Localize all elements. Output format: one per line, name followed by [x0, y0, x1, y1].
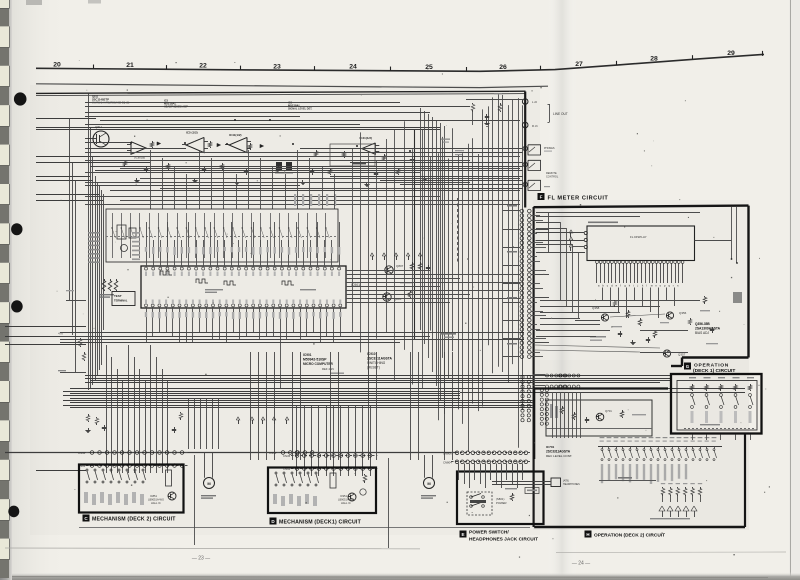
svg-text:G: G	[686, 364, 690, 369]
IC901 inner pin numbers	[145, 272, 147, 277]
vertical wire drops deck2	[106, 345, 108, 473]
svg-text:PHONES: PHONES	[544, 147, 555, 150]
IC901 side labels	[132, 232, 140, 234]
bias extra components	[614, 300, 616, 302]
page 24 bottom edge line	[556, 551, 786, 554]
ruler tick	[692, 55, 694, 59]
resistor box in E	[525, 488, 539, 494]
svg-text:Q356: Q356	[679, 311, 687, 315]
connector CN45 row	[291, 452, 304, 454]
svg-text:MICRO COMPUTER: MICRO COMPUTER	[303, 362, 333, 366]
svg-text:Q807: Q807	[396, 264, 404, 268]
svg-text:MECHANISM (DECK1) CIRCUIT: MECHANISM (DECK1) CIRCUIT	[279, 520, 362, 526]
transistor Q810	[383, 293, 391, 301]
wires into E box	[458, 464, 460, 481]
power switch S801	[467, 492, 492, 515]
remote control jack	[523, 162, 527, 166]
svg-text:POWER SWITCH/: POWER SWITCH/	[469, 530, 509, 536]
svg-text:OPERATION: OPERATION	[694, 363, 729, 369]
svg-text:FL METER CIRCUIT: FL METER CIRCUIT	[548, 196, 609, 202]
motor M deck1	[424, 478, 435, 489]
signal arrows	[157, 142, 160, 145]
FL meter box border	[534, 206, 749, 208]
svg-text:SIGNAL LEVEL DET.: SIGNAL LEVEL DET.	[288, 108, 313, 111]
microcomputer IC901 body	[141, 266, 346, 308]
ruler tick	[762, 51, 764, 56]
svg-text:Q811: Q811	[95, 125, 102, 129]
punch hole	[8, 506, 19, 518]
components near Q807	[412, 262, 414, 264]
wire bus left margin verticals	[88, 94, 90, 391]
svg-text:IC901: IC901	[303, 353, 312, 357]
label E POWER SWITCH HEADPHONES JACK CIRCUIT	[460, 531, 467, 538]
svg-text:IC851: IC851	[150, 494, 157, 498]
wire bus band lower	[60, 332, 524, 334]
svg-text:20: 20	[53, 62, 61, 69]
connector column CN70x	[540, 388, 543, 391]
mechanism deck1 box	[268, 468, 376, 514]
svg-text:29: 29	[727, 50, 735, 57]
svg-text:24: 24	[349, 64, 357, 71]
dashed vertical bus	[457, 198, 459, 262]
ruler tick	[314, 66, 316, 70]
labels above matrix	[294, 194, 296, 206]
svg-text:Q810: Q810	[394, 297, 402, 301]
svg-text:IC5 (1/2): IC5 (1/2)	[186, 131, 198, 135]
svg-text:23: 23	[273, 63, 281, 70]
svg-text:HEADPHONES: HEADPHONES	[563, 483, 580, 486]
svg-text:CONTROL: CONTROL	[546, 176, 559, 179]
svg-text:28: 28	[650, 56, 658, 63]
svg-text:HALL IC: HALL IC	[151, 501, 161, 505]
F box vertical wires	[560, 222, 562, 300]
FL right verticals	[731, 207, 733, 259]
mechanism deck2 box	[79, 465, 184, 513]
vertical wires H	[552, 392, 554, 438]
ruler tick	[540, 66, 542, 70]
wires fold to H	[533, 374, 546, 376]
svg-text:BIAS ADJ: BIAS ADJ	[695, 331, 709, 335]
amplifier feedback components	[124, 160, 126, 162]
punch hole	[11, 223, 22, 235]
svg-text:HEADPHONES AMP: HEADPHONES AMP	[164, 106, 188, 109]
IC901 top pins	[145, 267, 148, 270]
record-play switch matrix block	[106, 209, 338, 262]
transistor Q357	[663, 350, 670, 357]
deck1 operation switches	[689, 377, 696, 378]
svg-text:Q701: Q701	[605, 409, 612, 413]
FL display left pins	[584, 231, 587, 234]
transistor Q358	[601, 314, 608, 321]
svg-text:M50942-510SP: M50942-510SP	[303, 358, 327, 362]
svg-text:2SC3311AGSTA: 2SC3311AGSTA	[546, 450, 571, 454]
dark block	[733, 292, 742, 303]
punch hole	[11, 300, 23, 312]
G box feed wires	[692, 435, 694, 441]
connector column lower fold	[521, 375, 524, 378]
label F FL METER CIRCUIT	[538, 193, 545, 200]
connector rows H	[546, 374, 549, 377]
deck1 hall IC	[330, 473, 336, 488]
svg-text:IC41(1/2): IC41(1/2)	[229, 133, 242, 137]
label POWER SW	[440, 333, 456, 335]
rec jack	[523, 182, 527, 186]
power switch box E	[457, 472, 544, 525]
svg-text:IC701: IC701	[546, 445, 555, 449]
svg-text:HALL IC: HALL IC	[341, 501, 351, 505]
wire bus mid	[85, 152, 420, 154]
wires CN to FL display	[536, 232, 585, 234]
svg-text:TEST: TEST	[114, 294, 122, 298]
left margin small components	[80, 338, 82, 340]
svg-text:27: 27	[575, 61, 583, 68]
wire bus left margin	[36, 118, 96, 120]
line out jack R	[522, 122, 528, 128]
svg-text:— 24 —: — 24 —	[572, 561, 590, 567]
svg-text:LB9051A-WG: LB9051A-WG	[338, 498, 354, 502]
ruler tick	[93, 65, 95, 69]
svg-text:H: H	[586, 532, 589, 537]
IC801 components	[117, 225, 126, 239]
resistors near line out	[466, 93, 474, 94]
svg-text:F: F	[540, 194, 543, 199]
strong vertical node wire	[414, 130, 416, 340]
svg-text:POWER: POWER	[496, 501, 507, 505]
line out jack L	[522, 99, 528, 105]
headphones jack AT8	[551, 478, 561, 487]
svg-text:2SC3311AGSTA: 2SC3311AGSTA	[367, 357, 392, 361]
node flags	[238, 420, 240, 424]
svg-text:CN45: CN45	[283, 454, 291, 458]
op-amp IC5 1/2	[186, 137, 204, 152]
svg-text:Q356-35B: Q356-35B	[695, 322, 710, 326]
vertical wire drops group3	[250, 352, 252, 460]
transistor Q356	[666, 312, 673, 319]
filter blocks	[276, 162, 282, 171]
page 23 bottom edge line	[5, 547, 420, 550]
wire bus band upper	[85, 375, 671, 377]
FL display wires to meter drivers	[602, 288, 604, 301]
svg-text:E: E	[461, 532, 464, 537]
svg-text:CN804: CN804	[443, 460, 452, 464]
ruler secondary line	[36, 84, 548, 88]
op-amp feedback box	[330, 144, 375, 166]
svg-text:TERMINAL: TERMINAL	[114, 299, 128, 303]
wire bus band main	[70, 388, 460, 390]
svg-text:REC LEVEL CONT.: REC LEVEL CONT.	[546, 454, 572, 458]
wire below deck1 box	[388, 458, 390, 548]
label H OPERATION (DECK2) CIRCUIT	[585, 531, 592, 538]
svg-text:26: 26	[499, 64, 507, 71]
wires to jacks	[300, 148, 523, 150]
left page bottom border	[79, 527, 530, 529]
svg-text:R ch: R ch	[532, 124, 538, 128]
svg-text:IC41(1/2): IC41(1/2)	[360, 136, 373, 140]
svg-text:25: 25	[425, 64, 433, 71]
svg-text:LINE OUT: LINE OUT	[553, 112, 568, 116]
center connector column CN802	[520, 209, 524, 213]
operation deck2 box	[534, 387, 668, 389]
IC901 left labels	[88, 232, 100, 234]
svg-text:Q358: Q358	[592, 306, 600, 310]
label C MECHANISM (DECK 2) CIRCUIT	[83, 515, 90, 522]
vertical wire bundle center	[352, 149, 354, 333]
op-amp IC41 2/2	[362, 143, 376, 154]
TEST TERMINAL box	[112, 292, 135, 306]
svg-text:CN46: CN46	[78, 451, 86, 455]
svg-text:2SA1309AGSTA: 2SA1309AGSTA	[695, 327, 721, 331]
svg-text:m: m	[651, 285, 653, 288]
FL display block	[587, 226, 695, 261]
label D MECHANISM (DECK1) CIRCUIT	[270, 518, 277, 525]
svg-text:OPERATION (DECK 2) CIRCUIT: OPERATION (DECK 2) CIRCUIT	[594, 532, 665, 538]
svg-text:SWITCH(+N.FB)/REC/HSE EQ.(C): SWITCH(+N.FB)/REC/HSE EQ.(C)	[92, 102, 129, 105]
vertical wire drops deck1	[296, 405, 298, 476]
transistor Q811	[93, 131, 109, 147]
svg-text:LB9051A-WG: LB9051A-WG	[148, 498, 164, 502]
ruler tick	[390, 67, 392, 71]
FL display pin row	[596, 261, 599, 264]
ruler tick	[616, 61, 618, 65]
ruler tick	[240, 66, 242, 70]
svg-text:22: 22	[199, 63, 207, 70]
F box inner wires	[536, 212, 700, 214]
svg-text:Q357: Q357	[678, 353, 686, 357]
deck1 switches	[275, 472, 277, 474]
IC901 bottom pins	[145, 304, 148, 307]
svg-text:r: r	[673, 284, 674, 288]
punch hole	[14, 92, 27, 105]
H bottom cluster	[659, 506, 665, 511]
svg-text:MECHANISM (DECK 2) CIRCUIT: MECHANISM (DECK 2) CIRCUIT	[92, 517, 176, 523]
svg-text:REF 4.2V: REF 4.2V	[322, 367, 334, 371]
svg-text:HEADPHONES JACK CIRCUIT: HEADPHONES JACK CIRCUIT	[469, 537, 538, 543]
wire below deck2 box	[194, 455, 196, 545]
IC701 block	[546, 400, 652, 436]
components near bus left	[88, 414, 90, 416]
IC901 internal waveform glyphs	[196, 279, 208, 283]
wire bus top rows	[85, 102, 400, 104]
ruler tick	[466, 67, 468, 71]
svg-text:L ch: L ch	[532, 100, 538, 104]
wires IC901 right side	[346, 270, 430, 272]
DECK B bracket	[599, 480, 656, 482]
resistor in E	[505, 488, 517, 489]
resistor group T-FRAME	[104, 279, 106, 281]
H resistor array row B	[661, 483, 665, 484]
H switch array row A	[598, 446, 722, 448]
wire bus amplifier row	[85, 112, 430, 114]
svg-text:CN44: CN44	[269, 451, 277, 455]
svg-text:IC951: IC951	[340, 494, 347, 498]
label G OPERATION (DECK1) CIRCUIT	[684, 363, 691, 370]
vertical drops to matrix	[150, 150, 152, 209]
bias circuit components	[628, 310, 630, 312]
deck2 switches	[86, 469, 88, 471]
operation deck1 box	[671, 374, 762, 434]
svg-text:— 23 —: — 23 —	[192, 556, 210, 562]
deck2 hall IC	[166, 470, 172, 486]
center page divider border	[524, 92, 526, 208]
ruler tick	[166, 65, 168, 69]
ruler line	[36, 54, 764, 71]
svg-text:21: 21	[126, 62, 134, 69]
svg-text:CN806: CN806	[443, 451, 452, 455]
resistor R951	[364, 474, 366, 476]
transistor Q807	[385, 266, 393, 274]
schematic top border	[36, 91, 526, 93]
op-amp IC41 1/2	[229, 137, 247, 152]
flag arrows right of IC901	[372, 256, 374, 260]
op-amp IC801B	[131, 142, 146, 155]
scan speckles	[280, 135, 281, 136]
phones jack	[523, 146, 527, 150]
svg-text:FL DISPLAY: FL DISPLAY	[630, 235, 647, 239]
nested bus corner verticals	[420, 108, 422, 330]
motor M deck2	[204, 478, 215, 489]
vertical wire drops group2	[188, 398, 190, 449]
label RED TV	[441, 139, 450, 140]
